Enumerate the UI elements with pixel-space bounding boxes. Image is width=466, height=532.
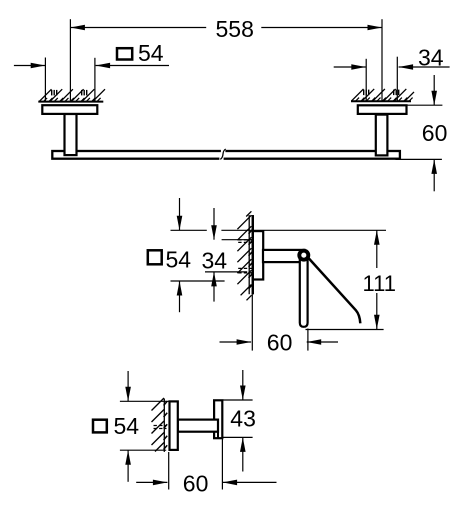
- svg-text:43: 43: [230, 406, 256, 432]
- wall surface line middle overdraw: [252, 215, 254, 294]
- svg-text:558: 558: [216, 16, 254, 42]
- hook inner step line: [217, 432, 219, 438]
- dimension 60 middle right arrow: [307, 341, 338, 343]
- dimension 60 middle left arrow: [220, 341, 252, 343]
- towel bar rail: [52, 151, 400, 159]
- dimension 60 bottom right arrow: [223, 481, 277, 483]
- roll holder bar: [300, 255, 308, 327]
- wall surface line left mount: [38, 101, 103, 103]
- hidden hub line dashed bottom outer: [238, 272, 254, 274]
- dimension 54 middle top arrow: [179, 198, 181, 230]
- arrowhead 34 right: [399, 64, 414, 70]
- flange plate middle: [253, 231, 263, 279]
- extension line 558 left: [69, 19, 71, 101]
- right wall flange: [358, 105, 407, 114]
- arrowhead 54 left: [31, 63, 46, 69]
- extension line 54 bottom middle: [171, 280, 225, 282]
- wall hatching left mount: [40, 89, 106, 101]
- dimension 558 line: [70, 27, 206, 29]
- square symbol 54 bottom: [93, 420, 107, 433]
- arrowhead 111 bottom: [374, 315, 380, 330]
- dimension 111 line: [376, 230, 378, 268]
- extension line 54 left: [44, 58, 46, 102]
- arrowhead 54 right: [96, 63, 111, 69]
- extension line 60 right middle (roll): [307, 329, 309, 351]
- dimension 54 bottom-drawing bottom arrow: [127, 450, 129, 482]
- extension line 60 top (wall surface): [407, 104, 443, 106]
- square symbol 54 middle: [148, 250, 162, 264]
- hook stem: [178, 420, 218, 432]
- dimension 60 bottom left arrow: [136, 481, 167, 483]
- dimension 43 top arrow: [242, 370, 244, 400]
- arrowhead 34 left: [351, 64, 366, 70]
- svg-text:60: 60: [183, 471, 209, 497]
- hook body: [214, 400, 222, 438]
- wall surface line middle: [252, 215, 254, 294]
- extension line 54/111 top (flange top): [171, 229, 207, 231]
- extension line 60 left middle (wall): [251, 294, 253, 350]
- extension line 34 left: [365, 59, 367, 101]
- extension line 60 bottom (rail underside): [396, 158, 442, 160]
- extension line 111 bottom: [306, 329, 384, 331]
- dimension 43 bottom arrow: [242, 437, 244, 471]
- dimension 34 line right part: [399, 66, 450, 68]
- dimension 54 middle bottom arrow: [179, 281, 181, 312]
- holder arm: [263, 250, 305, 262]
- dimension 54 line left part: [14, 65, 45, 67]
- extension line 34 bottom middle: [205, 271, 247, 273]
- flange plate bottom drawing: [170, 401, 178, 450]
- extension line 60 left bottom-drawing: [168, 452, 170, 490]
- arrowhead 558 right: [368, 25, 383, 31]
- wall hatching right mount: [352, 89, 415, 101]
- extension line 43 top: [223, 399, 253, 401]
- dimension 54 bottom-drawing top arrow: [127, 371, 129, 401]
- paper flap: [305, 254, 361, 324]
- hatch ticks bottom: [164, 401, 168, 449]
- svg-text:54: 54: [138, 40, 164, 66]
- square symbol 54 top: [117, 48, 132, 59]
- arrowhead 111 top: [374, 230, 380, 245]
- hidden hub line dashed top outer: [238, 239, 254, 241]
- wall hatching middle: [237, 211, 251, 300]
- hidden hub line dashed bottom inner: [238, 267, 254, 269]
- svg-text:54: 54: [114, 413, 140, 439]
- wall surface line right mount: [351, 100, 411, 102]
- wall line thin middle: [248, 215, 250, 294]
- svg-text:60: 60: [267, 330, 293, 356]
- extension line 558 right: [381, 19, 383, 101]
- dimension 60 arrow bottom: [433, 159, 435, 191]
- pivot ring: [299, 251, 308, 260]
- dimension 34 middle bottom arrow: [213, 272, 215, 302]
- extension line 54 bottom bottom-drawing: [120, 449, 166, 451]
- arrowhead 558 left: [70, 25, 85, 31]
- wall line thin bottom: [163, 399, 165, 452]
- left post: [65, 114, 77, 155]
- svg-text:34: 34: [202, 248, 228, 274]
- hidden hub line dashed top inner: [238, 241, 254, 243]
- dimension 34 middle top arrow: [213, 208, 215, 240]
- hatch ticks middle: [249, 230, 253, 289]
- break mark on rail: [221, 149, 226, 153]
- svg-text:60: 60: [422, 120, 448, 146]
- hidden line dashed bottom drawing upper: [154, 425, 167, 427]
- svg-text:111: 111: [363, 271, 396, 296]
- hidden line dashed bottom drawing lower: [154, 428, 167, 430]
- extension line 60 right bottom-drawing: [221, 439, 223, 490]
- dimension 60 arrow top: [433, 75, 435, 105]
- svg-text:34: 34: [418, 45, 444, 71]
- extension line 54 top bottom-drawing: [120, 400, 169, 402]
- extension line 34 top middle: [222, 239, 254, 241]
- extension line 34 right: [396, 57, 398, 101]
- extension line 43 bottom: [223, 436, 253, 438]
- left wall flange: [42, 105, 97, 114]
- dimension 54 line right part: [96, 65, 169, 67]
- wall hatching bottom: [152, 398, 165, 452]
- right post: [376, 115, 388, 156]
- dimension 34 line left part: [334, 66, 366, 68]
- svg-text:54: 54: [166, 247, 192, 273]
- extension line 54 right: [94, 58, 96, 101]
